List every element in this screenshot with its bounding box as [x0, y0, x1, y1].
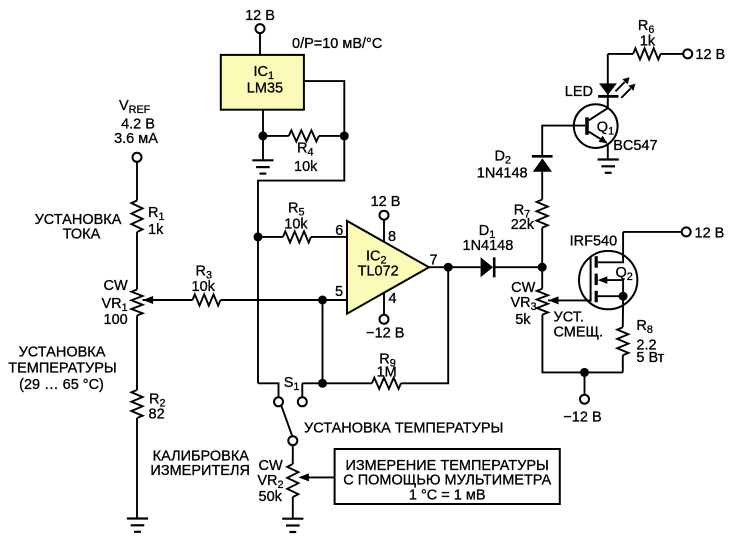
wire VR1 wiper to R3 — [143, 299, 193, 301]
wire R4 right lead — [319, 135, 344, 137]
svg-text:1k: 1k — [148, 222, 164, 238]
op-amp U2 TL072 body — [347, 221, 429, 314]
wire R3 to pin 5 — [221, 299, 348, 301]
Q2 source connection — [598, 295, 623, 297]
junction Q2 source — [619, 292, 628, 301]
svg-text:0/P=10 мВ/°C: 0/P=10 мВ/°C — [292, 36, 382, 52]
svg-text:1N4148: 1N4148 — [477, 166, 528, 182]
terminal +12V opamp — [380, 211, 389, 220]
wire Q2 source to R8 — [622, 296, 624, 327]
terminal -12V — [580, 395, 589, 404]
wire VR3 wiper to Q2 gate — [548, 299, 591, 301]
Q2 gate bar — [590, 257, 592, 302]
wire R9 to output node — [401, 267, 448, 383]
potentiometer VR3 — [537, 289, 548, 315]
svg-text:TL072: TL072 — [358, 264, 399, 280]
wire node up to R7 — [541, 228, 543, 268]
wire R4 left lead — [263, 135, 289, 137]
svg-text:10k: 10k — [294, 159, 318, 175]
svg-text:5 Вт: 5 Вт — [636, 350, 664, 366]
svg-text:ИЗМЕРИТЕЛЯ: ИЗМЕРИТЕЛЯ — [150, 463, 250, 479]
svg-text:5k: 5k — [515, 312, 531, 328]
ground left column — [127, 519, 148, 532]
wire Q2 drain to 12V — [623, 231, 682, 233]
S1 pole contact — [288, 436, 297, 445]
wire VR2 to ground — [292, 497, 294, 519]
ground Q1 — [598, 160, 619, 173]
svg-text:22k: 22k — [511, 217, 535, 233]
svg-text:КАЛИБРОВКА: КАЛИБРОВКА — [153, 448, 250, 464]
transistor Q1 body — [574, 104, 618, 148]
svg-text:IRF540: IRF540 — [570, 233, 618, 249]
S1 blade — [281, 406, 292, 437]
S1 left contact — [274, 397, 283, 406]
resistor R9 — [372, 378, 401, 389]
svg-text:−12 В: −12 В — [563, 409, 601, 425]
resistor R2 — [131, 390, 142, 418]
resistor R4 — [289, 130, 319, 141]
svg-text:7: 7 — [430, 253, 438, 269]
wire R6 to 12V terminal — [661, 53, 684, 55]
wire VREF to R1 — [136, 162, 138, 201]
svg-text:10k: 10k — [284, 216, 308, 232]
svg-text:12 В: 12 В — [695, 47, 725, 63]
svg-text:CW: CW — [511, 280, 535, 296]
wire R8 to -12V rail — [622, 355, 624, 372]
svg-text:−12 В: −12 В — [366, 326, 404, 342]
diode D1 — [481, 257, 493, 277]
transistor Q2 body — [579, 251, 637, 309]
svg-text:4: 4 — [389, 291, 397, 307]
wire pin 7 output — [429, 266, 481, 268]
svg-text:С ПОМОЩЬЮ МУЛЬТИМЕТРА: С ПОМОЩЬЮ МУЛЬТИМЕТРА — [343, 473, 551, 489]
svg-text:12 В: 12 В — [695, 226, 725, 242]
potentiometer VR1 wiper arrow — [143, 296, 154, 304]
svg-text:ТОКА: ТОКА — [63, 227, 101, 243]
Q1 collector — [589, 98, 608, 120]
diode D2 — [533, 158, 552, 172]
svg-text:10k: 10k — [192, 279, 216, 295]
junction S1/R9 node — [318, 379, 327, 388]
potentiometer VR1 — [131, 290, 142, 316]
wire R2 to ground — [136, 418, 138, 519]
resistor R1 — [131, 201, 142, 233]
svg-text:ТЕМПЕРАТУРЫ: ТЕМПЕРАТУРЫ — [8, 361, 117, 377]
svg-text:BC547: BC547 — [613, 138, 657, 154]
resistor R7 — [537, 200, 548, 228]
svg-text:12 В: 12 В — [245, 8, 275, 24]
resistor R3 — [193, 294, 221, 305]
svg-text:100: 100 — [104, 312, 128, 328]
wire node down to VR3 — [541, 267, 543, 289]
note box measure temperature — [335, 449, 560, 504]
junction R4 right — [340, 131, 349, 140]
wire S1 right contact riser — [301, 383, 303, 397]
svg-text:5: 5 — [335, 284, 343, 300]
wire D2 to Q1 base — [542, 126, 585, 157]
resistor R5 — [283, 231, 311, 242]
svg-text:3.6 мА: 3.6 мА — [114, 131, 158, 147]
junction R7/VR3 node — [538, 263, 547, 272]
junction output node — [444, 263, 453, 272]
wire feedback rail to S1 left contact — [258, 383, 279, 397]
S1 right contact — [298, 397, 307, 406]
LED D3 — [599, 83, 617, 95]
resistor R8 — [617, 327, 628, 355]
potentiometer VR3 wiper arrow — [548, 296, 559, 304]
svg-text:50k: 50k — [259, 489, 283, 505]
ground LM35 — [252, 160, 273, 173]
svg-text:УСТ.: УСТ. — [554, 309, 584, 325]
wire Q1 emitter to ground — [607, 143, 609, 159]
svg-text:12 В: 12 В — [371, 194, 401, 210]
wire D1 to R7/VR3 node — [496, 266, 543, 268]
terminal 12V top — [256, 24, 265, 33]
pin 8 wire — [383, 220, 385, 243]
ground VR2 — [282, 519, 303, 532]
svg-text:CW: CW — [104, 278, 128, 294]
svg-text:УСТАНОВКА: УСТАНОВКА — [19, 345, 106, 361]
svg-text:1N4148: 1N4148 — [463, 238, 514, 254]
wire LED to R6 corner — [607, 54, 609, 98]
svg-text:1M: 1M — [377, 364, 397, 380]
svg-text:СМЕЩ.: СМЕЩ. — [554, 325, 604, 341]
wire note box arrow to VR2 — [306, 476, 335, 478]
IC U1 LM35 body — [221, 55, 304, 110]
wire IC1 gnd pin — [262, 110, 264, 161]
svg-text:УСТАНОВКА ТЕМПЕРАТУРЫ: УСТАНОВКА ТЕМПЕРАТУРЫ — [304, 421, 503, 437]
Q1 emitter — [589, 132, 607, 143]
wire S1 pole to VR2 — [292, 445, 294, 464]
svg-text:LED: LED — [565, 84, 593, 100]
terminal 12V R6 — [683, 49, 692, 58]
svg-text:CW: CW — [259, 458, 283, 474]
svg-text:8: 8 — [388, 229, 396, 245]
junction R5 tap — [254, 232, 263, 241]
Q2 channel bars — [595, 256, 598, 302]
resistor R6 — [633, 48, 661, 59]
wire R5 left lead — [258, 236, 283, 238]
svg-text:6: 6 — [335, 223, 343, 239]
wire VR3 bottom to -12V rail — [542, 315, 622, 373]
pin 4 wire — [383, 293, 385, 315]
wire S1 node to R9 — [302, 382, 372, 384]
potentiometer VR2 — [287, 464, 298, 497]
Q2 drain connection — [598, 232, 623, 262]
wire R5 right lead to pin 6 — [311, 236, 347, 238]
terminal VREF — [133, 153, 142, 162]
svg-text:1k: 1k — [640, 34, 656, 50]
LED arrows — [616, 82, 625, 91]
svg-text:(29 … 65 °C): (29 … 65 °C) — [19, 377, 104, 393]
junction IC1 gnd / R4 — [258, 131, 267, 140]
wire R1 to VR1 — [136, 232, 138, 290]
Q2 body arrow — [604, 280, 623, 296]
wire VR1 to R2 — [136, 316, 138, 391]
terminal -12V opamp — [380, 315, 389, 324]
wire pin5 node down to S1 node — [322, 300, 324, 383]
wire 12V to IC1 — [259, 33, 261, 55]
terminal 12V Q2 — [682, 227, 691, 236]
wire -12V node to terminal — [584, 372, 586, 395]
wire IC1 output to feedback rail — [258, 81, 344, 383]
wire R7 to D2 — [541, 172, 543, 200]
svg-text:82: 82 — [149, 407, 165, 423]
svg-text:1 °C = 1 мВ: 1 °C = 1 мВ — [409, 488, 486, 504]
junction pin5/S1 riser — [318, 296, 327, 305]
svg-text:LM35: LM35 — [247, 81, 283, 97]
junction -12V node — [580, 368, 589, 377]
potentiometer VR2 wiper arrow — [298, 473, 309, 481]
